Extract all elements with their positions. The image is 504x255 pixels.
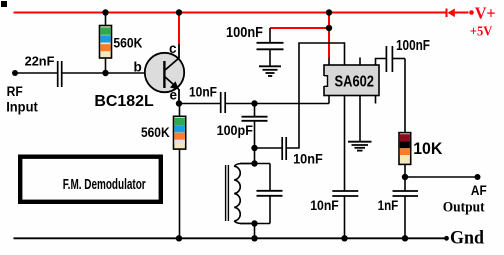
wire red branch to 100nF [270,27,329,29]
capacitor C1 22nF [58,61,62,87]
resistor R1 560K [100,13,112,74]
wire emitter to C2 [179,103,220,105]
capacitor C9 1nF [393,177,419,238]
pin 5 stub bottom [375,96,377,104]
svg-text:10nF: 10nF [293,151,323,166]
wire C7 to R3 [393,58,406,60]
capacitor C7 100nF [386,46,392,72]
wire AF output [405,176,478,178]
junction red branch [326,25,332,31]
corner mark [1,1,7,7]
junction rail-IC [326,9,332,15]
capacitor C2 10nF [221,92,226,113]
ground G2 [348,142,372,151]
svg-text:100pF: 100pF [217,123,253,138]
pin 6 to 100nF [376,59,387,66]
junction rail-collector [176,9,182,15]
svg-text:F.M. Demodulator: F.M. Demodulator [63,176,146,193]
wire collector red drop [178,13,180,45]
junction rail-R1 [102,9,108,15]
svg-text:10nF: 10nF [189,85,217,100]
junction node B [251,145,257,151]
capacitor C5 tank [257,164,283,224]
svg-text:Gnd: Gnd [450,228,485,248]
svg-text:BC182L: BC182L [94,93,154,110]
node V+ terminal dot [469,10,474,15]
wire node B to C4 [255,147,283,149]
pin 4 SA602 long down [344,96,346,191]
capacitor C6 100nF decoupling [257,28,284,66]
svg-text:e: e [170,88,178,103]
svg-text:10nF: 10nF [310,198,339,213]
capacitor C8 10nF [332,191,358,238]
svg-text:RF: RF [7,84,23,99]
wire base [15,72,57,74]
svg-text:560K: 560K [113,34,142,50]
pin 3 SA602 to ground [359,96,361,142]
wire V+ rail [14,12,447,14]
wire IC V+ red drop [328,13,330,58]
node AF terminal [475,174,481,180]
resistor R2 560K [174,104,186,239]
svg-text:100nF: 100nF [396,37,430,54]
wire C4 to pin1 SA602 [287,43,345,148]
ground G1 [259,66,281,76]
resistor R3 10K [399,59,411,178]
svg-text:10K: 10K [413,139,443,158]
pin 7 stub top [359,58,361,66]
svg-text:22nF: 22nF [25,54,55,69]
junction AF node [402,174,408,180]
wire ground rail [14,237,447,239]
capacitor C3 100pF [242,104,268,149]
junction tank top [251,160,257,166]
junction base-R1 [102,70,108,76]
node RF input terminal [12,70,18,76]
pin 2 stub SA602 bottom-left [328,96,330,104]
capacitor C4 10nF [282,137,286,160]
svg-text:100nF: 100nF [226,24,263,41]
junction node A [251,100,257,106]
junction rail-C8 [341,235,347,241]
svg-text:AF: AF [471,182,487,198]
node Gnd terminal [444,236,449,241]
diode D1 [446,9,469,18]
svg-text:Output: Output [443,200,485,216]
wire node B to tank [254,148,256,164]
svg-text:V+: V+ [475,4,496,23]
wire tank to ground rail [254,224,256,239]
junction tank bottom [251,220,257,226]
junction rail-R2 [176,235,182,241]
op-amp U1 SA602 [322,65,380,96]
inductor L1 [226,164,255,224]
svg-text:1nF: 1nF [378,198,399,213]
svg-text:560K: 560K [141,124,170,140]
junction rail-tank [251,235,257,241]
svg-text:c: c [169,41,177,56]
junction emitter node [176,100,182,106]
svg-text:b: b [134,60,142,75]
svg-text:Input: Input [6,99,38,114]
wire tank bottom [240,223,270,225]
svg-text:+5V: +5V [470,23,493,38]
F.M. Demodulator title box [20,157,161,202]
svg-text:SA602: SA602 [335,73,375,90]
wire C2 to node A [226,103,330,105]
junction rail-C9 [402,235,408,241]
wire tank top [240,163,270,165]
transistor Q1 BC182L [145,44,184,104]
pin 8 stub black [328,58,330,66]
